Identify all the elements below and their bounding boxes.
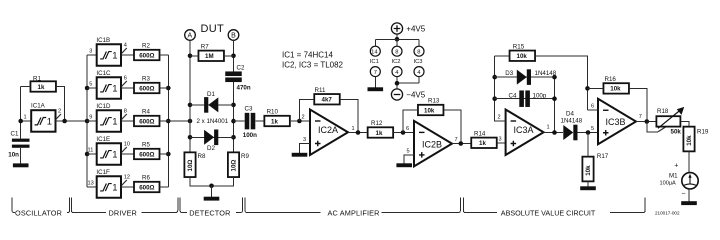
svg-text:6: 6 [406, 126, 409, 132]
wire R17 to ground [587, 181, 589, 186]
svg-text:IC2A: IC2A [318, 125, 338, 135]
svg-text:IC1 = 74HC14: IC1 = 74HC14 [282, 50, 333, 59]
wire R15 left lead [495, 55, 510, 57]
svg-text:7: 7 [374, 70, 377, 76]
label 2 x 1N4001 [197, 118, 229, 125]
svg-text:R9: R9 [241, 153, 249, 160]
svg-text:12: 12 [124, 175, 130, 181]
svg-text:C2: C2 [237, 65, 245, 72]
svg-text:IC1F: IC1F [96, 169, 110, 176]
svg-text:3: 3 [303, 137, 306, 143]
pin 6 [591, 104, 594, 110]
svg-text:5: 5 [89, 82, 92, 88]
svg-text:14: 14 [371, 50, 378, 56]
resistor R5 [134, 142, 160, 160]
svg-text:D4: D4 [566, 110, 574, 117]
label meter plus [674, 163, 678, 170]
wire bus to IC1C [87, 87, 97, 89]
svg-text:1N4148: 1N4148 [561, 117, 583, 124]
svg-text:100n: 100n [243, 132, 257, 139]
svg-text:5: 5 [591, 126, 594, 132]
wire IC2A pin3 to ground [300, 144, 311, 154]
junction IC2A output [356, 130, 361, 135]
note IC types [282, 50, 344, 69]
op-gate IC1E [96, 136, 121, 165]
svg-text:600Ω: 600Ω [139, 85, 154, 92]
svg-text:R11: R11 [315, 87, 326, 94]
op-gate IC1F [96, 169, 121, 198]
svg-text:AC AMPLIFIER: AC AMPLIFIER [328, 208, 380, 217]
terminal B [228, 30, 239, 41]
resistor R19 [683, 127, 709, 152]
junction rail B / D2 [231, 135, 236, 140]
svg-text:OSCILLATOR: OSCILLATOR [15, 208, 62, 217]
resistor R3 [134, 76, 160, 94]
resistor R12 [368, 120, 394, 138]
inverter slash IC1D [122, 114, 127, 120]
diode D2 [204, 130, 218, 153]
svg-text:100p: 100p [533, 93, 547, 100]
junction R16 tap [585, 86, 590, 91]
junction D4 / R17 [586, 130, 591, 135]
pin 1 [352, 126, 355, 132]
svg-text:8: 8 [417, 50, 420, 56]
junction detector ground node [209, 184, 214, 189]
svg-text:IC1B: IC1B [96, 37, 110, 44]
wire driver bus to detector rail [168, 120, 190, 122]
pin circle IC1-14 [370, 46, 380, 56]
junction input node [18, 119, 23, 124]
resistor R1 [30, 75, 56, 91]
svg-text:2: 2 [302, 115, 305, 121]
svg-text:IC1E: IC1E [96, 136, 110, 143]
svg-text:ABSOLUTE VALUE CIRCUIT: ABSOLUTE VALUE CIRCUIT [501, 208, 596, 217]
resistor R9 [228, 152, 250, 177]
svg-text:IC1D: IC1D [96, 103, 111, 110]
driver output bus [167, 55, 169, 187]
resistor R14 [471, 130, 497, 148]
svg-text:A: A [188, 33, 193, 40]
op-amp IC2A [310, 110, 348, 156]
junction -4V5 rail [395, 81, 400, 86]
pin 7 [455, 137, 458, 143]
svg-text:1: 1 [352, 126, 355, 132]
svg-text:1: 1 [547, 125, 550, 131]
wire feedback right vertical to output [554, 77, 556, 132]
junction rail B / R7 [231, 54, 236, 59]
junction rail A / D2 [188, 135, 193, 140]
svg-text:210017-002: 210017-002 [655, 211, 680, 216]
wire R3 to bus [160, 87, 169, 89]
wire rail A [189, 40, 191, 153]
svg-text:IC1C: IC1C [96, 70, 111, 77]
potentiometer R18 [656, 107, 684, 135]
svg-text:IC2B: IC2B [422, 139, 442, 149]
wire R16 right lead down to output [629, 88, 647, 121]
wire D3 row [495, 76, 555, 78]
junction D3 left [492, 75, 497, 80]
resistor R13 [418, 98, 444, 116]
wire rail B upper [233, 40, 235, 73]
svg-text:9: 9 [89, 115, 92, 121]
pin circle IC1-7 [370, 67, 380, 77]
svg-text:7: 7 [455, 137, 458, 143]
junction bus IC1E row [85, 152, 90, 157]
svg-text:+: + [674, 163, 678, 170]
wire C4 row [495, 98, 555, 100]
wire R5 to bus [160, 153, 169, 155]
resistor R6 [134, 175, 160, 193]
wire IC1A output to driver bus [56, 120, 88, 122]
ground (power) [368, 87, 384, 91]
svg-text:IC2, IC3 = TL082: IC2, IC3 = TL082 [282, 61, 344, 70]
pin 1 [24, 115, 27, 121]
svg-text:1k: 1k [376, 130, 383, 137]
wire R7 leads [190, 55, 234, 57]
label meter minus [682, 191, 686, 198]
svg-text:10k: 10k [585, 165, 592, 176]
wire D1 row [190, 104, 234, 106]
wire R12 to IC2B pin 6 [393, 132, 414, 134]
svg-text:1: 1 [24, 115, 27, 121]
pin 10 [124, 142, 130, 148]
wire supply top rail [375, 39, 419, 46]
wire pin6 stub [588, 109, 599, 111]
svg-text:6: 6 [124, 76, 127, 82]
ground (meter) [681, 201, 697, 205]
diode D4 [561, 110, 583, 140]
svg-text:2: 2 [498, 115, 501, 121]
capacitor C1 [8, 131, 29, 159]
svg-text:R18: R18 [657, 108, 669, 115]
svg-text:DUT: DUT [201, 23, 225, 35]
wire IC1E to R5 [121, 153, 134, 155]
wire rail B to C3 [234, 120, 245, 122]
wire IC1C to R3 [121, 87, 134, 89]
svg-text:D1: D1 [207, 91, 215, 98]
svg-text:R14: R14 [474, 130, 486, 137]
pin 12 [124, 175, 130, 181]
wire R19 to meter [688, 151, 690, 172]
junction IC1A output / R1 [62, 119, 67, 124]
op-gate IC1D [96, 103, 121, 132]
svg-text:DRIVER: DRIVER [109, 208, 137, 217]
pin circle IC2-8 [392, 46, 402, 56]
pin 8 [124, 109, 127, 115]
wire R14 to IC3A pin3 [497, 142, 506, 144]
svg-text:8: 8 [124, 109, 127, 115]
wire R13 left lead down to pin6 [403, 110, 418, 133]
pin circle IC3-8 [414, 46, 424, 56]
svg-text:D2: D2 [207, 145, 215, 152]
svg-text:IC2: IC2 [392, 59, 401, 65]
diode D1 [204, 91, 218, 113]
wire R11 left lead down to pin2 node [299, 99, 314, 121]
label DUT [201, 23, 225, 35]
pin 2 [498, 115, 501, 121]
svg-text:R6: R6 [142, 175, 150, 182]
svg-text:100µA: 100µA [660, 180, 677, 186]
wire C1 to ground [20, 148, 22, 164]
pin 1 [547, 125, 550, 131]
svg-text:D3: D3 [505, 70, 513, 77]
wire R16 left lead [588, 87, 604, 89]
svg-text:R4: R4 [142, 109, 150, 116]
svg-text:13: 13 [88, 181, 94, 187]
diode D3 [505, 69, 556, 85]
svg-text:C4: C4 [509, 93, 517, 100]
svg-text:10n: 10n [8, 152, 19, 159]
pin 3 [499, 137, 502, 143]
junction IC3B output [645, 119, 650, 124]
svg-text:2 x 1N4001: 2 x 1N4001 [197, 118, 229, 125]
wire R8/R9 bottoms to center [190, 177, 234, 186]
op-amp IC3A [506, 110, 544, 156]
wire C3 to R10 [255, 120, 264, 122]
wire IC1 pin7 to ground [374, 77, 376, 88]
svg-text:10: 10 [124, 142, 130, 148]
wire meter to ground [688, 189, 690, 201]
pin circle IC2-4 [392, 67, 402, 77]
junction C4 left [492, 96, 497, 101]
resistor R17 [582, 153, 608, 181]
pin 13 [88, 181, 94, 187]
svg-text:10Ω: 10Ω [187, 160, 194, 172]
svg-text:R15: R15 [513, 43, 525, 50]
junction IC2B output [459, 141, 464, 146]
junction out-bus IC1C row [166, 86, 171, 91]
op-amp IC2B [414, 121, 452, 166]
+4V5 terminal [391, 23, 425, 34]
svg-text:−: − [682, 191, 686, 198]
wire R11 right lead down to output [340, 99, 358, 132]
wire D4 to IC3B pin5 [578, 132, 599, 134]
junction bus IC1D row [85, 119, 90, 124]
junction rail B / C3 [231, 119, 236, 124]
terminal A [185, 30, 196, 41]
junction R10 / R11 feedback [297, 119, 302, 124]
pin 2 [58, 109, 61, 115]
ground (IC2A) [292, 153, 308, 157]
resistor R15 [510, 43, 536, 61]
wire +4V5 to rail [396, 34, 398, 39]
svg-text:IC3A: IC3A [514, 125, 534, 135]
junction C4 right [552, 96, 557, 101]
capacitor C4 [509, 90, 547, 107]
wire bus to IC1E [87, 153, 97, 155]
wire IC1D to R4 [121, 120, 134, 122]
pin 2 [302, 115, 305, 121]
svg-text:11: 11 [88, 148, 94, 154]
junction out-bus IC1E row [166, 152, 171, 157]
resistor R11 [314, 87, 340, 104]
wire R4 to bus [160, 120, 169, 122]
svg-text:3: 3 [89, 49, 92, 55]
svg-text:1k: 1k [38, 84, 45, 91]
pin 9 [89, 115, 92, 121]
svg-text:50k: 50k [671, 128, 682, 135]
label 210017-002 [655, 211, 680, 216]
op-gate IC1A [31, 103, 56, 132]
svg-text:IC3B: IC3B [606, 117, 626, 127]
pin 11 [88, 148, 94, 154]
svg-text:3: 3 [499, 137, 502, 143]
svg-text:10k: 10k [517, 53, 528, 60]
resistor R4 [134, 109, 160, 127]
pin 6 [124, 76, 127, 82]
junction rail A / D1 [188, 103, 193, 108]
pin 7 [639, 114, 642, 120]
pin 5 [407, 149, 410, 155]
svg-text:470n: 470n [237, 85, 251, 92]
svg-text:B: B [231, 33, 236, 40]
svg-text:6: 6 [591, 104, 594, 110]
pin 5 [591, 126, 594, 132]
svg-text:IC3: IC3 [414, 59, 423, 65]
ground (detector) [204, 197, 220, 201]
wire input node to IC1A pin 1 [21, 120, 32, 122]
op-amp IC3B [598, 99, 636, 145]
resistor R8 [184, 152, 206, 177]
-4V5 terminal [391, 89, 425, 100]
svg-text:600Ω: 600Ω [139, 118, 154, 125]
inverter slash IC1C [122, 81, 127, 87]
wire IC1F to R6 [121, 186, 134, 188]
svg-text:4k7: 4k7 [322, 97, 333, 104]
ground (R17) [580, 186, 596, 190]
svg-text:4: 4 [124, 43, 127, 49]
svg-text:1k: 1k [479, 140, 486, 147]
resistor R10 [264, 108, 290, 126]
svg-text:600Ω: 600Ω [139, 184, 154, 191]
svg-text:C3: C3 [245, 105, 253, 112]
svg-text:R1: R1 [33, 75, 41, 82]
svg-text:10Ω: 10Ω [231, 160, 238, 172]
junction D3 right [552, 75, 557, 80]
inverter slash IC1E [122, 147, 127, 153]
svg-text:R13: R13 [428, 98, 440, 105]
wire IC2B pin5 to ground [404, 155, 414, 164]
wire stub to ground [211, 186, 213, 197]
svg-text:10k: 10k [610, 86, 621, 93]
ground (C1) [13, 163, 29, 167]
capacitor C3 [243, 105, 257, 139]
node IN (IC1A input) vertical [20, 87, 22, 139]
wire R18 to R19 [680, 122, 689, 128]
ground (IC2B) [396, 163, 412, 167]
junction rail A / drive [188, 119, 193, 124]
wire R15 right lead to IC3B pin6 vertical [535, 56, 587, 110]
svg-text:R5: R5 [142, 142, 150, 149]
svg-text:600Ω: 600Ω [139, 52, 154, 59]
wire IC2A output to R12 [348, 132, 368, 134]
wire R13 right lead down to output [444, 110, 461, 144]
svg-text:R8: R8 [198, 153, 206, 160]
pin 4 [124, 43, 127, 49]
wire R10 to IC2A pin 2 [290, 120, 310, 122]
pin 3 [303, 137, 306, 143]
driver input bus [86, 55, 88, 187]
bracket OSCILLATOR [12, 198, 70, 218]
svg-text:DETECTOR: DETECTOR [189, 208, 230, 217]
op-gate IC1C [96, 70, 121, 99]
svg-text:R19: R19 [697, 129, 709, 136]
wire D2 row [190, 136, 234, 138]
svg-text:R10: R10 [267, 108, 279, 115]
wire bus to IC1D [87, 120, 97, 122]
capacitor C2 [225, 65, 251, 92]
svg-text:R16: R16 [605, 76, 617, 83]
wire bus to IC1B [87, 54, 97, 56]
wire pin2 vertical from feedback network [495, 56, 506, 121]
inverter slash IC1B [122, 48, 127, 54]
svg-text:M1: M1 [669, 172, 678, 179]
svg-text:R3: R3 [142, 76, 150, 83]
inverter slash IC1A output [56, 114, 61, 120]
wire IC2B output to R14 [452, 143, 471, 145]
labels IC1 IC2 IC3 [370, 59, 423, 65]
svg-text:600Ω: 600Ω [139, 151, 154, 158]
junction supply rail [395, 37, 400, 42]
svg-text:IC1A: IC1A [31, 103, 46, 110]
svg-text:R12: R12 [371, 120, 383, 127]
resistor R16 [603, 76, 629, 94]
junction bus IC1C row [85, 86, 90, 91]
svg-text:R2: R2 [142, 43, 150, 50]
wire IC3A output to D4 [544, 132, 563, 134]
svg-text:1k: 1k [271, 118, 278, 125]
svg-text:R7: R7 [201, 43, 209, 50]
svg-text:8: 8 [395, 50, 398, 56]
bracket DRIVER [71, 198, 178, 218]
junction rail A / R7 [188, 54, 193, 59]
bracket AC AMPLIFIER [245, 198, 460, 218]
op-gate IC1B [96, 37, 121, 66]
pin 5 [89, 82, 92, 88]
bracket DETECTOR [180, 198, 242, 218]
svg-text:10k: 10k [686, 135, 693, 146]
resistor R7 [198, 43, 224, 61]
inverter slash IC1F [122, 180, 127, 186]
junction IC3A output [552, 130, 557, 135]
pin 6 [406, 126, 409, 132]
wire R2 to bus [160, 54, 169, 56]
svg-text:2: 2 [58, 109, 61, 115]
junction out-bus IC1D row [166, 119, 171, 124]
wire R18 wiper loop [647, 122, 666, 132]
junction rail B / D1 [231, 103, 236, 108]
meter M1 [660, 172, 699, 189]
wire IC3B output to R18 [636, 121, 656, 123]
wire IC1B to R2 [121, 54, 134, 56]
wire R1 left lead [21, 86, 31, 88]
svg-text:C1: C1 [11, 131, 19, 138]
junction R13 feedback / pin 6 [401, 130, 406, 135]
svg-text:R17: R17 [597, 153, 609, 160]
svg-text:5: 5 [407, 149, 410, 155]
svg-text:IC1: IC1 [370, 59, 379, 65]
wire bus to IC1F [87, 186, 97, 188]
svg-text:10k: 10k [424, 107, 435, 114]
bracket ABSOLUTE VALUE CIRCUIT [463, 198, 645, 218]
pin circle IC3-4 [414, 67, 424, 77]
svg-text:+4V5: +4V5 [406, 24, 425, 33]
wire pin5 node to R17 [587, 133, 589, 157]
wire pins 4 to -4V5 [397, 77, 419, 89]
svg-text:1M: 1M [205, 53, 214, 60]
svg-text:7: 7 [639, 114, 642, 120]
pin 3 [89, 49, 92, 55]
